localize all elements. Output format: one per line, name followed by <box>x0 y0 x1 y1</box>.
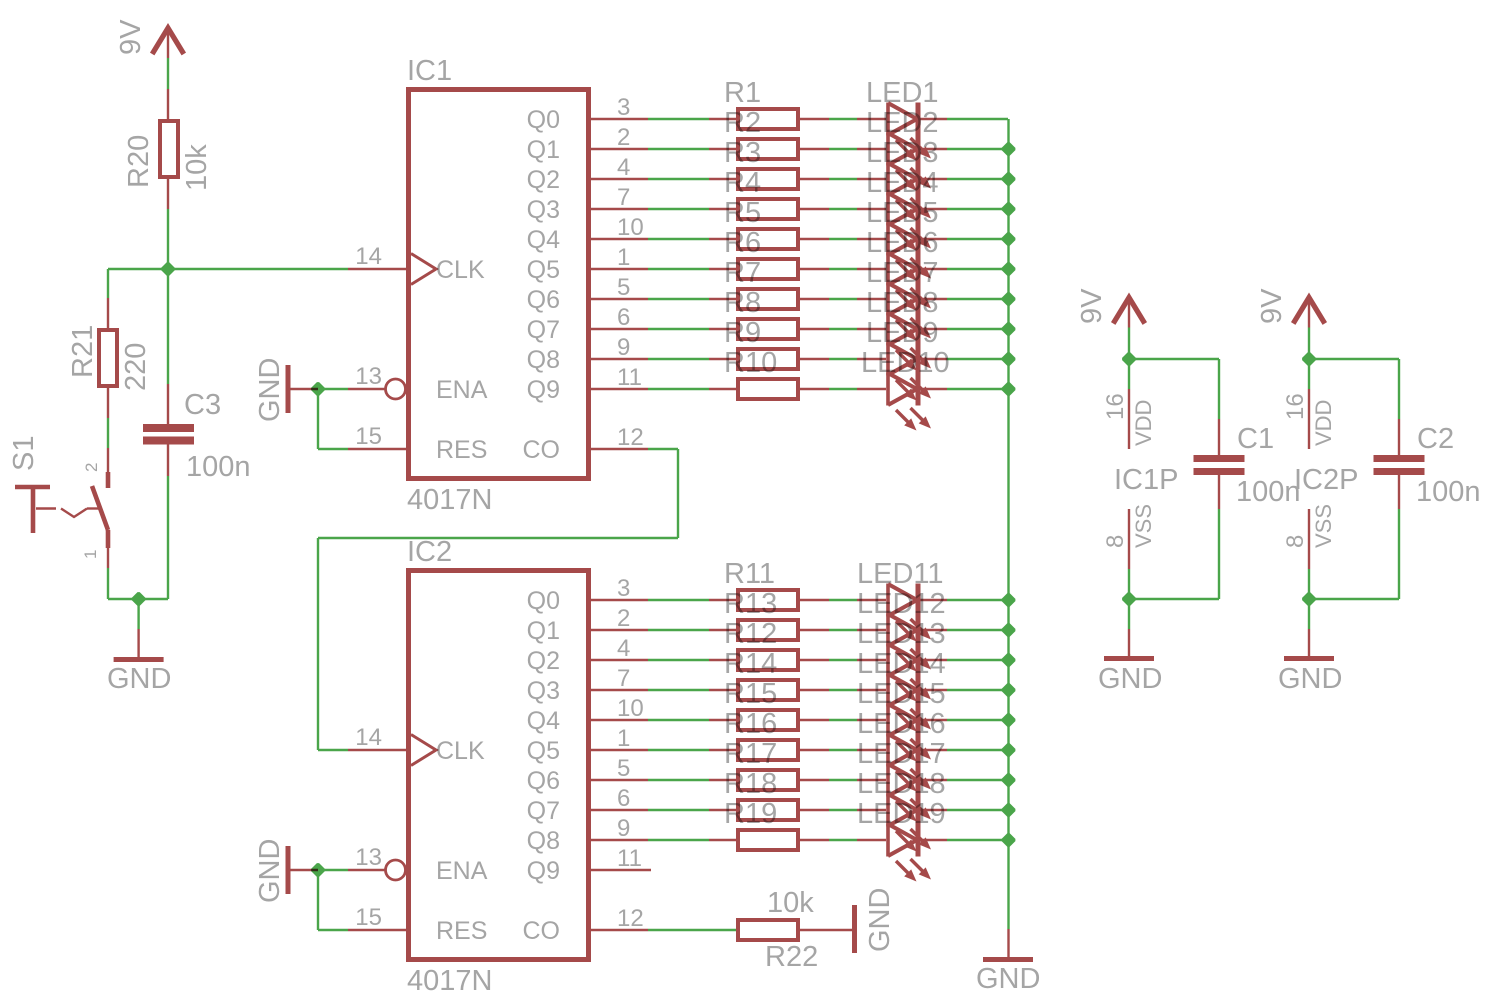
wire 9V to VDD (IC1P) <box>1128 328 1130 360</box>
svg-text:VDD: VDD <box>1131 400 1156 446</box>
pin R20 top <box>167 89 169 119</box>
junction bus y=780 <box>1002 773 1016 787</box>
svg-text:LED17: LED17 <box>857 738 946 770</box>
svg-text:Q5: Q5 <box>527 256 560 284</box>
svg-text:15: 15 <box>355 423 382 450</box>
wire gnd to IC1 RES <box>318 448 348 450</box>
svg-text:IC1P: IC1P <box>1114 464 1178 496</box>
LED LED3 <box>888 163 931 221</box>
LED LED6 <box>888 253 931 311</box>
svg-text:2: 2 <box>82 463 101 472</box>
LED LED9 <box>888 343 931 401</box>
svg-text:LED13: LED13 <box>857 618 946 650</box>
pin R15 right <box>800 719 829 721</box>
wire to ground (IC2P) <box>1308 599 1310 629</box>
wire C1 to gnd node <box>1218 509 1220 599</box>
resistor R9 <box>738 349 798 369</box>
junction bus y=810 <box>1002 803 1016 817</box>
wire to IC2 CLK <box>318 749 348 751</box>
pin IC1 Q7 <box>591 328 648 330</box>
junction bus y=269 <box>1002 262 1016 276</box>
pin IC2 Q8 <box>591 839 648 841</box>
pin ground (IC2 ENA) <box>291 869 319 871</box>
svg-text:CLK: CLK <box>436 737 485 765</box>
pin LED8 cathode <box>920 328 947 330</box>
junction VDD node (IC1P) <box>1122 352 1136 366</box>
wire IC1 Q4 to R5 <box>648 238 709 240</box>
wire IC2 Q7 to R18 <box>648 809 709 811</box>
junction IC1 ENA gnd <box>311 382 325 396</box>
svg-text:Q2: Q2 <box>527 166 560 194</box>
pin R13 left <box>709 629 736 631</box>
junction bus y=660 <box>1002 653 1016 667</box>
svg-text:LED15: LED15 <box>857 678 946 710</box>
resistor R8 <box>738 319 798 339</box>
wire VSS to gnd node (IC1P) <box>1128 569 1130 599</box>
pin R8 left <box>709 328 736 330</box>
pin R11 right <box>800 599 829 601</box>
svg-text:10k: 10k <box>767 887 814 919</box>
svg-text:Q0: Q0 <box>527 587 560 615</box>
resistor R20 <box>160 121 178 177</box>
pin C1 top <box>1218 419 1220 455</box>
pin IC1 Q5 <box>591 268 648 270</box>
wire IC1 Q9 to R10 <box>648 388 709 390</box>
pin R10 left <box>709 388 736 390</box>
svg-text:Q9: Q9 <box>527 376 560 404</box>
wire VSS to gnd node (IC2P) <box>1308 569 1310 599</box>
svg-text:R1: R1 <box>724 77 761 109</box>
svg-text:Q2: Q2 <box>527 647 560 675</box>
svg-text:100n: 100n <box>1416 476 1481 508</box>
svg-text:5: 5 <box>617 274 630 301</box>
pin LED11 cathode <box>920 599 947 601</box>
supply 9V (top left) <box>152 28 184 54</box>
pin R15 left <box>709 719 736 721</box>
pin LED5 cathode <box>920 238 947 240</box>
resistor R4 <box>738 199 798 219</box>
svg-text:R4: R4 <box>724 167 761 199</box>
wire IC2 Q3 to R14 <box>648 689 709 691</box>
resistor R12 <box>738 650 798 670</box>
wire IC1 CO left <box>318 537 678 539</box>
LED LED5 <box>888 223 931 281</box>
pin R9 left <box>709 358 736 360</box>
svg-text:LED9: LED9 <box>866 317 939 349</box>
wire VDD node to C1 <box>1129 358 1219 360</box>
wire R6 to LED6 <box>829 268 857 270</box>
svg-text:LED18: LED18 <box>857 768 946 800</box>
wire gnd down to IC1 RES <box>317 389 319 449</box>
svg-text:4: 4 <box>617 154 630 181</box>
junction bus y=690 <box>1002 683 1016 697</box>
pin LED10 anode <box>857 388 886 390</box>
svg-text:Q7: Q7 <box>527 797 560 825</box>
junction VSS node (IC2P) <box>1302 592 1316 606</box>
pin LED12 cathode <box>920 629 947 631</box>
svg-text:2: 2 <box>617 605 630 632</box>
pin R3 right <box>800 178 829 180</box>
pin IC2 Q9 stub <box>591 869 651 871</box>
pin IC1 Q4 <box>591 238 648 240</box>
svg-text:LED2: LED2 <box>866 107 939 139</box>
wire LED13 to GND bus <box>947 659 1008 661</box>
wire IC1 Q6 to R7 <box>648 298 709 300</box>
svg-text:1: 1 <box>617 725 630 752</box>
wire R20 to node A <box>167 209 169 269</box>
pin LED18 cathode <box>920 809 947 811</box>
svg-text:Q4: Q4 <box>527 707 560 735</box>
net layer (green wires and junctions) <box>108 58 1399 930</box>
svg-text:Q1: Q1 <box>527 136 560 164</box>
pin IC2 Q3 <box>591 689 648 691</box>
wire IC1 Q0 to R1 <box>648 118 709 120</box>
wire IC1 Q7 to R8 <box>648 328 709 330</box>
wire down to C1 <box>1218 359 1220 419</box>
pin LED3 anode <box>857 178 886 180</box>
resistor R19 <box>738 830 798 850</box>
clock input marker IC1 CLK <box>411 254 436 285</box>
pin LED14 anode <box>857 689 886 691</box>
svg-text:R9: R9 <box>724 317 761 349</box>
pin GND (left) <box>137 629 139 657</box>
svg-text:LED14: LED14 <box>857 648 946 680</box>
pin LED6 anode <box>857 268 886 270</box>
wire 9V to R20 <box>167 58 169 89</box>
svg-text:R3: R3 <box>724 137 761 169</box>
pin C3 top <box>167 384 169 424</box>
svg-text:LED19: LED19 <box>857 798 946 830</box>
pin IC1 Q8 <box>591 358 648 360</box>
wire LED16 to GND bus <box>947 749 1008 751</box>
svg-text:LED4: LED4 <box>866 167 939 199</box>
svg-text:9V: 9V <box>115 19 147 55</box>
wire R12 to LED13 <box>829 659 857 661</box>
wire IC1 CO down <box>677 449 679 538</box>
wire R4 to LED4 <box>829 208 857 210</box>
junction bus y=299 <box>1002 292 1016 306</box>
resistor R18 <box>738 800 798 820</box>
wire down to C2 <box>1398 359 1400 419</box>
svg-text:7: 7 <box>617 665 630 692</box>
wire GND bus vertical <box>1007 119 1009 929</box>
svg-text:12: 12 <box>617 424 644 451</box>
svg-text:7: 7 <box>617 184 630 211</box>
inversion bubble IC1 ENA <box>386 379 406 399</box>
wire R9 to LED9 <box>829 358 857 360</box>
wire R15 to LED15 <box>829 719 857 721</box>
svg-text:R20: R20 <box>123 135 155 188</box>
pin LED17 cathode <box>920 779 947 781</box>
pin IC1 Q0 <box>591 118 648 120</box>
svg-text:C2: C2 <box>1417 423 1454 455</box>
pin LED9 cathode <box>920 358 947 360</box>
svg-text:R12: R12 <box>724 618 777 650</box>
wire LED7 to GND bus <box>947 298 1008 300</box>
svg-text:Q3: Q3 <box>527 196 560 224</box>
wire IC2 Q4 to R15 <box>648 719 709 721</box>
svg-text:Q8: Q8 <box>527 827 560 855</box>
pin IC1 Q1 <box>591 148 648 150</box>
ground (R22) <box>852 905 857 953</box>
svg-text:GND: GND <box>1278 663 1342 695</box>
wire LED2 to GND bus <box>947 148 1008 150</box>
ground (bus) <box>983 957 1033 962</box>
pin LED16 anode <box>857 749 886 751</box>
svg-text:R16: R16 <box>724 708 777 740</box>
pin R3 left <box>709 178 736 180</box>
svg-text:CO: CO <box>523 917 561 945</box>
svg-text:100n: 100n <box>1236 476 1301 508</box>
junction bus y=239 <box>1002 232 1016 246</box>
svg-text:C1: C1 <box>1237 423 1274 455</box>
pin ground (IC2P) <box>1308 629 1310 656</box>
wire LED17 to GND bus <box>947 779 1008 781</box>
junction bus y=149 <box>1002 142 1016 156</box>
svg-text:Q8: Q8 <box>527 346 560 374</box>
ground (IC1 ENA) <box>286 365 291 413</box>
pin R6 left <box>709 268 736 270</box>
wire IC2 Q1 to R13 <box>648 629 709 631</box>
wire R16 to LED16 <box>829 749 857 751</box>
svg-text:Q9: Q9 <box>527 857 560 885</box>
wire R18 to LED18 <box>829 809 857 811</box>
pin IC1 Q6 <box>591 298 648 300</box>
svg-text:3: 3 <box>617 94 630 121</box>
svg-text:GND: GND <box>864 888 896 952</box>
resistor R2 <box>738 139 798 159</box>
IC 4017N counter U-body IC2 <box>409 571 589 960</box>
pin IC1 ENA <box>348 388 385 390</box>
pin R20 bottom <box>167 179 169 209</box>
pin LED19 anode <box>857 839 886 841</box>
pin LED8 anode <box>857 328 886 330</box>
pin R7 right <box>800 298 829 300</box>
svg-text:RES: RES <box>436 917 487 945</box>
svg-text:LED6: LED6 <box>866 227 939 259</box>
wire to R21 <box>107 269 109 298</box>
pin C2 bottom <box>1398 475 1400 509</box>
pin LED2 cathode <box>920 148 947 150</box>
svg-text:4017N: 4017N <box>407 484 492 516</box>
pin R14 right <box>800 689 829 691</box>
wire R2 to LED2 <box>829 148 857 150</box>
wire IC2 Q2 to R12 <box>648 659 709 661</box>
wire LED19 to GND bus <box>947 839 1008 841</box>
pin IC2 Q5 <box>591 749 648 751</box>
wire IC1 Q3 to R4 <box>648 208 709 210</box>
wire IC2 Q6 to R17 <box>648 779 709 781</box>
supply 9V (IC2P) <box>1293 298 1325 324</box>
svg-text:16: 16 <box>1282 393 1309 420</box>
svg-text:C3: C3 <box>184 389 221 421</box>
resistor R22 <box>738 920 798 940</box>
LED LED18 <box>888 794 931 852</box>
LED LED15 <box>888 704 931 762</box>
pin R14 left <box>709 689 736 691</box>
wire to VDD pin (IC1P) <box>1128 359 1130 389</box>
junction VDD node (IC2P) <box>1302 352 1316 366</box>
svg-text:1: 1 <box>81 550 100 559</box>
wire LED15 to GND bus <box>947 719 1008 721</box>
wire R7 to LED7 <box>829 298 857 300</box>
svg-text:8: 8 <box>1102 535 1129 548</box>
pin IC2 CLK <box>348 749 406 751</box>
wire C3 to bottom rail <box>167 476 169 599</box>
pin R8 right <box>800 328 829 330</box>
wire 9V to VDD (IC2P) <box>1308 328 1310 360</box>
pin R13 right <box>800 629 829 631</box>
wire gnd to IC1 ENA <box>318 388 348 390</box>
junction bus y=750 <box>1002 743 1016 757</box>
pin LED16 cathode <box>920 749 947 751</box>
junction VSS node (IC1P) <box>1122 592 1136 606</box>
svg-text:Q6: Q6 <box>527 286 560 314</box>
svg-text:9V: 9V <box>1076 288 1108 324</box>
pin IC1 RES <box>348 448 406 450</box>
pin R22 right to ground <box>800 929 852 931</box>
pin R21 top <box>107 298 109 328</box>
wire gnd to IC2 RES <box>318 929 348 931</box>
LED LED11 <box>888 584 931 642</box>
pin LED2 anode <box>857 148 886 150</box>
IC 4017N counter U-body IC1 <box>409 90 589 479</box>
svg-text:R17: R17 <box>724 738 777 770</box>
wire IC1 Q2 to R3 <box>648 178 709 180</box>
svg-text:R5: R5 <box>724 197 761 229</box>
resistor R11 <box>738 590 798 610</box>
pin IC1 Q2 <box>591 178 648 180</box>
wire LED1 to GND bus <box>947 118 1008 120</box>
svg-text:Q5: Q5 <box>527 737 560 765</box>
pin LED6 cathode <box>920 268 947 270</box>
wire C1 gnd return <box>1129 598 1219 600</box>
pin R4 left <box>709 208 736 210</box>
pin GND (bus) <box>1007 929 1009 957</box>
pin R12 right <box>800 659 829 661</box>
svg-text:R7: R7 <box>724 257 761 289</box>
svg-text:4: 4 <box>617 635 630 662</box>
svg-text:ENA: ENA <box>436 857 488 885</box>
svg-text:RES: RES <box>436 436 487 464</box>
pin LED7 cathode <box>920 298 947 300</box>
wire LED5 to GND bus <box>947 238 1008 240</box>
svg-text:100n: 100n <box>186 451 251 483</box>
svg-text:LED11: LED11 <box>857 558 944 590</box>
pin LED5 anode <box>857 238 886 240</box>
svg-text:14: 14 <box>355 243 382 270</box>
pin R17 right <box>800 779 829 781</box>
pin LED1 anode <box>857 118 886 120</box>
pin IC2 Q7 <box>591 809 648 811</box>
svg-text:LED8: LED8 <box>866 287 939 319</box>
capacitor C3 <box>143 424 194 432</box>
svg-text:9: 9 <box>617 334 630 361</box>
clock input marker IC2 CLK <box>411 735 436 766</box>
svg-text:IC2P: IC2P <box>1294 464 1358 496</box>
pin LED17 anode <box>857 779 886 781</box>
svg-text:9V: 9V <box>1256 288 1288 324</box>
svg-text:R2: R2 <box>724 107 761 139</box>
wire LED6 to GND bus <box>947 268 1008 270</box>
pin R19 right <box>800 839 829 841</box>
wire LED12 to GND bus <box>947 629 1008 631</box>
wire R14 to LED14 <box>829 689 857 691</box>
wire LED11 to GND bus <box>947 599 1008 601</box>
pin IC2 Q1 <box>591 629 648 631</box>
svg-text:GND: GND <box>254 839 286 903</box>
pin IC2 CO <box>591 929 648 931</box>
svg-text:Q4: Q4 <box>527 226 560 254</box>
wire C2 gnd return <box>1309 598 1399 600</box>
wire C2 to gnd node <box>1398 509 1400 599</box>
wire R19 to LED19 <box>829 839 857 841</box>
resistor R16 <box>738 740 798 760</box>
wire R10 to LED10 <box>829 388 857 390</box>
pin LED9 anode <box>857 358 886 360</box>
LED LED8 <box>888 313 931 371</box>
junction bus y=389 <box>1002 382 1016 396</box>
pin R5 right <box>800 238 829 240</box>
svg-text:12: 12 <box>617 905 644 932</box>
svg-text:R8: R8 <box>724 287 761 319</box>
capacitor C2 <box>1374 455 1425 462</box>
pin R6 right <box>800 268 829 270</box>
resistor R5 <box>738 229 798 249</box>
ground (IC2P) <box>1284 656 1334 661</box>
pin IC1 CLK <box>348 268 406 270</box>
pin R21 bottom <box>107 388 109 418</box>
pin LED11 anode <box>857 599 886 601</box>
LED LED12 <box>888 614 931 672</box>
svg-text:14: 14 <box>355 724 382 751</box>
svg-text:Q1: Q1 <box>527 617 560 645</box>
junction bus y=359 <box>1002 352 1016 366</box>
svg-text:CO: CO <box>523 436 561 464</box>
svg-text:GND: GND <box>107 663 171 695</box>
wire IC1 Q5 to R6 <box>648 268 709 270</box>
svg-text:9: 9 <box>617 815 630 842</box>
LED LED17 <box>888 764 931 822</box>
pin C3 bottom <box>167 445 169 477</box>
pin IC1 Q9 <box>591 388 648 390</box>
LED LED1 <box>888 103 931 161</box>
svg-text:R19: R19 <box>724 798 777 830</box>
svg-text:8: 8 <box>1282 535 1309 548</box>
svg-text:VSS: VSS <box>1131 504 1156 548</box>
capacitor C1 <box>1194 455 1245 462</box>
pin LED10 cathode <box>920 388 947 390</box>
pin LED3 cathode <box>920 178 947 180</box>
svg-text:5: 5 <box>617 755 630 782</box>
resistor R1 <box>738 109 798 129</box>
svg-text:10: 10 <box>617 695 644 722</box>
LED LED10 <box>888 373 931 431</box>
junction bus y=840 <box>1002 833 1016 847</box>
pin R16 left <box>709 749 736 751</box>
pin VDD 16 (IC2P) <box>1308 389 1310 449</box>
svg-text:R14: R14 <box>724 648 777 680</box>
wire LED10 to GND bus <box>947 388 1008 390</box>
pin VSS 8 (IC2P) <box>1308 509 1310 569</box>
pin C2 top <box>1398 419 1400 455</box>
wire to VDD pin (IC2P) <box>1308 359 1310 389</box>
wire node A to R21 <box>108 268 168 270</box>
ground (IC1P) <box>1104 656 1154 661</box>
pin R2 left <box>709 148 736 150</box>
wire VDD node to C2 <box>1309 358 1399 360</box>
svg-text:VDD: VDD <box>1311 400 1336 446</box>
